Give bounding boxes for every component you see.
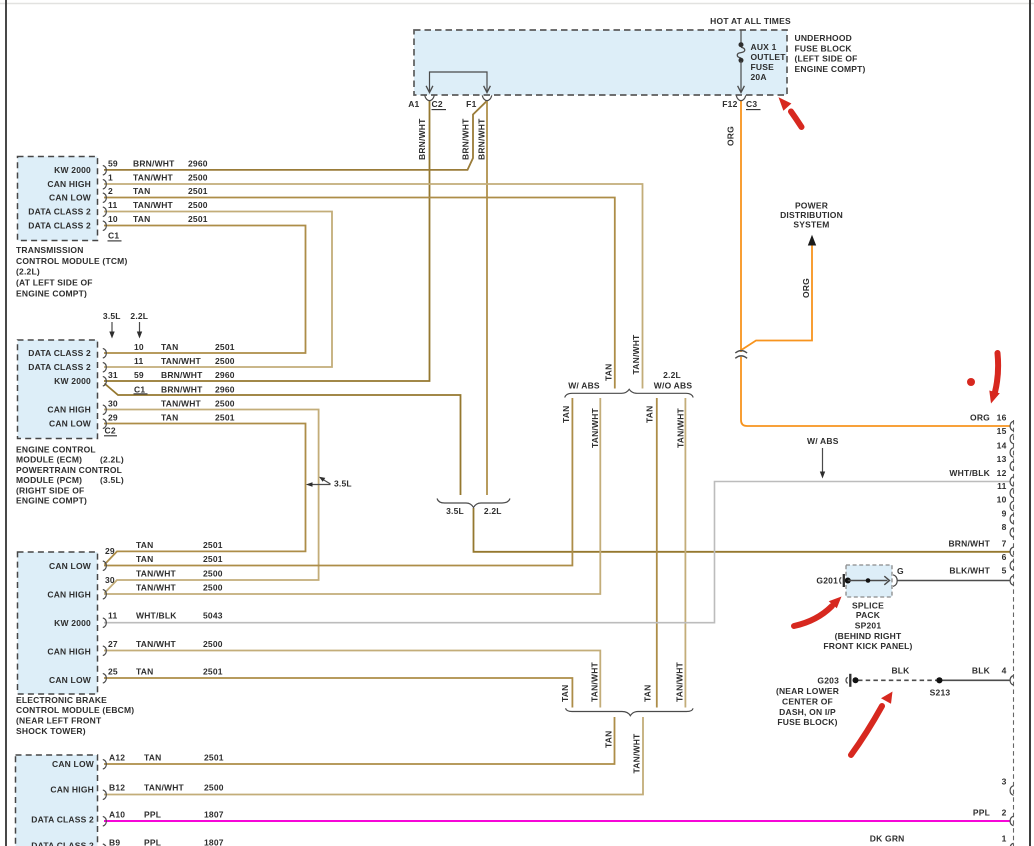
svg-text:UNDERHOOD: UNDERHOOD [795, 33, 853, 43]
svg-text:(AT LEFT SIDE OF: (AT LEFT SIDE OF [16, 278, 93, 288]
ECM pin arc 10 [103, 348, 107, 358]
svg-text:BLK: BLK [972, 665, 991, 675]
svg-text:A10: A10 [109, 810, 125, 820]
svg-text:PACK: PACK [856, 610, 881, 620]
svg-text:FUSE: FUSE [751, 62, 775, 72]
wire TAN 2501 TCM pin 2 to W/ABS brace top [104, 198, 615, 389]
EBCM pin arc 25 [103, 673, 107, 683]
svg-text:(NEAR LOWER: (NEAR LOWER [776, 686, 839, 696]
svg-text:ENGINE COMPT): ENGINE COMPT) [16, 496, 87, 506]
ECM pin arc 30 [103, 405, 107, 415]
svg-text:C2: C2 [105, 426, 116, 436]
svg-text:2: 2 [1002, 807, 1007, 817]
TCM pin arc 10 [103, 221, 107, 231]
wire TAN 2501 W/O ABS brace-to-brace vertical [656, 398, 658, 708]
svg-text:BRN/WHT: BRN/WHT [161, 370, 203, 380]
svg-text:SPLICE: SPLICE [852, 600, 884, 610]
wire TAN 2501 EBCM CAN LOW pin 25 to bottom brace [104, 678, 572, 708]
right connector pin cup 9 [1010, 514, 1014, 524]
right connector pin cup 12 [1010, 477, 1014, 487]
right connector pin cup 8 [1010, 528, 1014, 538]
right connector pin cup 11 [1010, 488, 1014, 498]
svg-text:59: 59 [108, 159, 118, 169]
svg-text:TAN/WHT: TAN/WHT [632, 733, 642, 774]
svg-text:TAN: TAN [133, 186, 150, 196]
wire BLK/WHT splice pack G to right connector pin 5 [897, 580, 1010, 582]
svg-text:(2.2L): (2.2L) [16, 267, 40, 277]
svg-text:C2: C2 [432, 99, 443, 109]
wire BRN/WHT 2960 from fuse block F1 (diagonal) down to TCM pin 59 [104, 101, 487, 170]
svg-text:2500: 2500 [203, 569, 223, 579]
wire break symbol on ORG wire [735, 351, 749, 359]
svg-text:CAN LOW: CAN LOW [49, 561, 92, 571]
svg-text:CAN LOW: CAN LOW [52, 759, 95, 769]
page right border [1029, 0, 1031, 846]
TCM pin arc 11 [103, 207, 107, 217]
svg-text:2500: 2500 [188, 173, 208, 183]
wire ORG below break to right connector pin 16 [741, 355, 1010, 426]
splice pack SP201 internals: dot, dot, arrow [845, 576, 890, 585]
svg-text:13: 13 [997, 454, 1007, 464]
wire TAN/WHT 2500 ECM CAN HIGH pin 30 to EBCM CAN HIGH pin 30 (diagonal at pin) [104, 410, 319, 594]
svg-text:TAN: TAN [136, 667, 153, 677]
wire ORG from fuse block F12/C3 down to break [740, 101, 742, 352]
brace W/ABS W/O ABS split [565, 389, 694, 397]
svg-text:12: 12 [997, 468, 1007, 478]
wire TAN/WHT 2500 bottom brace to DLC pin B12 [104, 717, 643, 795]
svg-text:WHT/BLK: WHT/BLK [136, 611, 177, 621]
fuse block internal bus A1 to F1 [430, 72, 488, 92]
svg-text:TAN/WHT: TAN/WHT [133, 173, 174, 183]
svg-text:DATA CLASS 2: DATA CLASS 2 [28, 221, 91, 231]
svg-text:14: 14 [997, 440, 1007, 450]
svg-text:29: 29 [108, 413, 118, 423]
svg-text:F1: F1 [466, 99, 476, 109]
svg-text:DATA CLASS 2: DATA CLASS 2 [31, 841, 94, 846]
wire WHT/BLK 5043 EBCM KW2000 pin 11 to right connector pin 12 [104, 482, 1010, 623]
DLC pin arc B12 [103, 790, 107, 800]
right connector pin cup 4 [1010, 676, 1014, 686]
connector cup F12/C3 [736, 95, 746, 100]
svg-text:TRANSMISSION: TRANSMISSION [16, 245, 84, 255]
wire TAN/WHT 2500 W/O ABS brace-to-brace vertical [684, 398, 686, 708]
svg-text:OUTLET: OUTLET [751, 52, 787, 62]
svg-text:TAN/WHT: TAN/WHT [590, 661, 600, 702]
LAYER: wires [104, 101, 1010, 821]
svg-text:C1: C1 [134, 385, 145, 395]
svg-text:A12: A12 [109, 753, 125, 763]
svg-text:2500: 2500 [204, 783, 224, 793]
right connector pin cup 14 [1010, 448, 1014, 458]
svg-text:TAN/WHT: TAN/WHT [136, 639, 177, 649]
svg-text:CAN HIGH: CAN HIGH [47, 179, 91, 189]
EBCM pin arc 29 [103, 561, 107, 571]
svg-text:2.2L: 2.2L [484, 506, 502, 516]
EBCM module box [18, 552, 98, 694]
arrowhead up to POWER DISTRIBUTION SYSTEM [808, 235, 816, 246]
svg-text:2500: 2500 [215, 399, 235, 409]
red arrow to G203 dashed wire [851, 706, 882, 755]
svg-text:TAN: TAN [136, 540, 153, 550]
svg-text:29: 29 [105, 546, 115, 556]
svg-text:TAN: TAN [136, 554, 153, 564]
svg-text:DK GRN: DK GRN [870, 833, 905, 843]
svg-text:SHOCK TOWER): SHOCK TOWER) [16, 726, 86, 736]
svg-text:TAN/WHT: TAN/WHT [674, 661, 684, 702]
ECM pin arc 11 [103, 362, 107, 372]
wire TAN 2501 ECM CAN LOW pin 29 to EBCM CAN LOW pin 29 (diagonal at pin) [104, 424, 306, 565]
svg-text:15: 15 [997, 426, 1007, 436]
svg-text:A1: A1 [408, 99, 419, 109]
TCM module box [18, 157, 98, 241]
right connector pin cup 5 [1010, 576, 1014, 586]
right module connector dashed line [1013, 420, 1015, 846]
wire TAN/WHT 2500 TCM pin 1 to W/ABS brace top [104, 184, 643, 389]
underhood fuse block box [414, 30, 787, 95]
page left border [5, 0, 7, 846]
svg-text:2500: 2500 [203, 639, 223, 649]
svg-text:2501: 2501 [203, 554, 223, 564]
svg-text:CAN HIGH: CAN HIGH [47, 647, 91, 657]
svg-text:30: 30 [105, 575, 115, 585]
svg-text:(2.2L): (2.2L) [100, 455, 124, 465]
svg-text:POWERTRAIN CONTROL: POWERTRAIN CONTROL [16, 465, 122, 475]
LAYER: red annotations [779, 97, 1000, 755]
right connector pin cup 7 [1010, 547, 1014, 557]
svg-text:2501: 2501 [204, 753, 224, 763]
ECM pin arc 29 [103, 419, 107, 429]
svg-text:3: 3 [1002, 776, 1007, 786]
svg-text:MODULE (PCM): MODULE (PCM) [16, 475, 82, 485]
svg-text:2501: 2501 [203, 540, 223, 550]
arrowhead down into A1 [426, 86, 433, 93]
svg-text:ENGINE COMPT): ENGINE COMPT) [795, 64, 866, 74]
svg-text:2501: 2501 [188, 214, 208, 224]
splice pack output cup G [893, 575, 897, 587]
svg-text:DATA CLASS 2: DATA CLASS 2 [31, 815, 94, 825]
svg-text:DATA CLASS 2: DATA CLASS 2 [28, 362, 91, 372]
svg-text:6: 6 [1002, 552, 1007, 562]
svg-text:BRN/WHT: BRN/WHT [476, 118, 486, 160]
wire ORG branch to power distribution system [741, 244, 812, 350]
svg-text:3.5L: 3.5L [446, 506, 464, 516]
svg-text:B9: B9 [109, 838, 120, 846]
svg-text:BLK/WHT: BLK/WHT [949, 566, 990, 576]
EBCM pin arc 30 [103, 589, 107, 599]
svg-text:7: 7 [1002, 538, 1007, 548]
ground G201 symbol [840, 574, 844, 587]
svg-text:CAN HIGH: CAN HIGH [47, 590, 91, 600]
svg-text:B12: B12 [109, 783, 125, 793]
bottom DLC module box [16, 755, 98, 846]
wire TAN/WHT 2500 TCM pin 11 to ECM DATA CLASS 2 pin 11 [104, 212, 332, 368]
right connector pin cup 3 [1010, 786, 1014, 796]
fuse AUX 1 OUTLET FUSE 20A [737, 30, 745, 92]
svg-text:2.2L: 2.2L [130, 311, 148, 321]
svg-text:BRN/WHT: BRN/WHT [948, 538, 990, 548]
red arrow to splice pack SP201 [794, 606, 832, 626]
svg-text:9: 9 [1002, 508, 1007, 518]
svg-text:CAN HIGH: CAN HIGH [50, 785, 94, 795]
DLC pin arc A12 [103, 759, 107, 769]
svg-text:(RIGHT SIDE OF: (RIGHT SIDE OF [16, 486, 84, 496]
svg-text:1807: 1807 [204, 810, 224, 820]
svg-text:TAN: TAN [133, 214, 150, 224]
svg-text:KW 2000: KW 2000 [54, 165, 91, 175]
svg-text:FUSE BLOCK): FUSE BLOCK) [777, 717, 837, 727]
arrow W/ ABS annotation down at WHT/BLK wire [822, 448, 824, 473]
svg-text:BLK: BLK [891, 665, 910, 675]
right connector pin cup 10 [1010, 501, 1014, 511]
svg-text:(BEHIND RIGHT: (BEHIND RIGHT [835, 631, 902, 641]
svg-text:DISTRIBUTION: DISTRIBUTION [780, 210, 843, 220]
EBCM pin arc 27 [103, 646, 107, 656]
wire TAN 2501 bottom brace to DLC pin A12 [104, 717, 615, 764]
right connector pin cup 2 [1010, 816, 1014, 826]
DLC pin arc B9 [103, 844, 107, 846]
svg-text:59: 59 [134, 370, 144, 380]
svg-text:1: 1 [1002, 833, 1007, 843]
svg-text:2500: 2500 [188, 200, 208, 210]
ECM module box [18, 340, 98, 439]
svg-text:CONTROL MODULE (TCM): CONTROL MODULE (TCM) [16, 256, 128, 266]
svg-text:DATA CLASS 2: DATA CLASS 2 [28, 348, 91, 358]
right connector pin cup 6 [1010, 561, 1014, 571]
svg-text:CONTROL MODULE (EBCM): CONTROL MODULE (EBCM) [16, 705, 134, 715]
svg-text:TAN: TAN [604, 731, 614, 748]
ECM pin arc 31/59 [103, 376, 107, 386]
wire BRN/WHT combined from 3.5L/2.2L brace to right connector pin 7 [474, 508, 1011, 552]
svg-text:TAN/WHT: TAN/WHT [133, 200, 174, 210]
DLC pin arc A10 [103, 816, 107, 826]
svg-text:TAN/WHT: TAN/WHT [144, 783, 185, 793]
arrowhead down into F1 [484, 86, 491, 93]
right connector pin cup 13 [1010, 461, 1014, 471]
svg-text:2960: 2960 [215, 385, 235, 395]
svg-text:FUSE BLOCK: FUSE BLOCK [795, 43, 853, 53]
svg-text:G201: G201 [816, 576, 838, 586]
svg-text:TAN: TAN [604, 364, 614, 381]
red arrow to fuse block C3 [791, 112, 802, 128]
TCM pin arc 59 [103, 165, 107, 175]
svg-text:1807: 1807 [204, 838, 224, 846]
right connector pin cup 15 [1010, 434, 1014, 444]
svg-text:2960: 2960 [215, 370, 235, 380]
wire TAN/WHT 2500 EBCM pin 30 second lead to W/ABS brace [104, 398, 600, 594]
svg-text:11: 11 [997, 481, 1006, 491]
svg-text:PPL: PPL [973, 807, 990, 817]
svg-text:G203: G203 [817, 676, 839, 686]
svg-text:HOT AT ALL TIMES: HOT AT ALL TIMES [710, 16, 791, 26]
svg-text:3.5L: 3.5L [103, 311, 121, 321]
arrow 2.2L annotation down (above ECM col 59) [139, 322, 141, 333]
svg-text:KW 2000: KW 2000 [54, 618, 91, 628]
svg-text:10: 10 [134, 342, 144, 352]
svg-text:ORG: ORG [970, 413, 990, 423]
svg-text:TAN: TAN [161, 413, 178, 423]
brace bottom join to DLC [566, 708, 694, 715]
red dot near pin 16 [967, 378, 975, 386]
svg-text:DASH, ON I/P: DASH, ON I/P [779, 707, 836, 717]
wire BRN/WHT 2960 from fuse block F1 straight down to 2.2L brace [486, 101, 488, 495]
svg-text:SYSTEM: SYSTEM [793, 219, 829, 229]
svg-text:2.2L: 2.2L [663, 370, 681, 380]
svg-text:TAN/WHT: TAN/WHT [631, 334, 641, 375]
wire TAN 2501 EBCM pin 29 second lead to W/ABS brace [104, 398, 572, 566]
svg-text:ELECTRONIC BRAKE: ELECTRONIC BRAKE [16, 695, 107, 705]
svg-text:CENTER OF: CENTER OF [782, 696, 833, 706]
splice S213 dot [936, 677, 942, 683]
svg-text:2: 2 [108, 186, 113, 196]
arrow 3.5L annotation down (above ECM col 31) [111, 322, 113, 333]
svg-text:AUX 1: AUX 1 [751, 42, 777, 52]
svg-text:2500: 2500 [215, 356, 235, 366]
brace 3.5L/2.2L join [437, 499, 510, 508]
svg-text:ENGINE COMPT): ENGINE COMPT) [16, 288, 87, 298]
svg-text:TAN: TAN [642, 685, 652, 702]
svg-text:8: 8 [1002, 522, 1007, 532]
svg-text:11: 11 [108, 200, 117, 210]
svg-text:W/O ABS: W/O ABS [654, 381, 693, 391]
svg-text:16: 16 [997, 413, 1007, 423]
svg-text:W/ ABS: W/ ABS [807, 436, 839, 446]
svg-text:11: 11 [108, 611, 117, 621]
svg-text:2501: 2501 [203, 667, 223, 677]
svg-text:BRN/WHT: BRN/WHT [133, 159, 175, 169]
svg-text:BRN/WHT: BRN/WHT [161, 385, 203, 395]
svg-text:W/ ABS: W/ ABS [568, 381, 600, 391]
svg-text:2960: 2960 [188, 159, 208, 169]
svg-text:ORG: ORG [726, 126, 736, 146]
svg-text:5: 5 [1002, 566, 1007, 576]
svg-text:3.5L: 3.5L [334, 479, 352, 489]
arrowhead 3.5L diagonal at TAN/WHT vertical [323, 480, 331, 485]
svg-text:(LEFT SIDE OF: (LEFT SIDE OF [795, 54, 858, 64]
svg-text:PPL: PPL [144, 810, 161, 820]
svg-text:PPL: PPL [144, 838, 161, 846]
ground G203 symbol [846, 674, 859, 687]
svg-text:C1: C1 [108, 231, 119, 241]
svg-text:SP201: SP201 [855, 620, 882, 630]
svg-text:WHT/BLK: WHT/BLK [949, 468, 990, 478]
svg-text:FRONT KICK PANEL): FRONT KICK PANEL) [823, 641, 912, 651]
svg-text:(3.5L): (3.5L) [100, 475, 124, 485]
wire TAN/WHT 2500 EBCM CAN HIGH pin 27 to bottom brace [104, 651, 600, 708]
connector cup F1 [482, 95, 492, 100]
svg-text:4: 4 [1002, 665, 1007, 675]
EBCM pin arc 11 [103, 618, 107, 628]
svg-text:TAN: TAN [144, 753, 161, 763]
right connector pin cup 1 [1010, 843, 1014, 846]
svg-text:TAN/WHT: TAN/WHT [675, 407, 685, 448]
svg-text:TAN: TAN [645, 406, 655, 423]
svg-text:20A: 20A [751, 72, 767, 82]
svg-text:DATA CLASS 2: DATA CLASS 2 [28, 207, 91, 217]
svg-text:MODULE (ECM): MODULE (ECM) [16, 455, 82, 465]
svg-text:KW 2000: KW 2000 [54, 376, 91, 386]
svg-text:10: 10 [108, 214, 118, 224]
svg-text:1: 1 [108, 173, 113, 183]
svg-text:TAN/WHT: TAN/WHT [136, 569, 177, 579]
svg-text:BRN/WHT: BRN/WHT [460, 118, 470, 160]
svg-text:TAN/WHT: TAN/WHT [590, 407, 600, 448]
svg-text:S213: S213 [930, 688, 951, 698]
svg-text:TAN/WHT: TAN/WHT [161, 399, 202, 409]
wire TAN 2501 TCM pin 10 to ECM DATA CLASS 2 pin 10 [104, 226, 306, 354]
TCM pin arc 1 [103, 179, 107, 189]
arrowhead down into F12 [738, 86, 745, 93]
wire PPL 1807 DLC pin A10 to right connector pin 2 [104, 820, 1010, 822]
svg-text:CAN LOW: CAN LOW [49, 675, 92, 685]
svg-text:TAN/WHT: TAN/WHT [161, 356, 202, 366]
svg-text:2501: 2501 [215, 413, 235, 423]
arrow 3.5L annotation pointing left at ECM CAN wires [310, 484, 331, 486]
svg-text:5043: 5043 [203, 611, 223, 621]
svg-text:2500: 2500 [203, 583, 223, 593]
svg-text:30: 30 [108, 399, 118, 409]
splice pack SP201 box [846, 565, 892, 597]
TCM pin arc 2 [103, 193, 107, 203]
wire BRN/WHT 2960 from fuse block A1/C2 down to ECM KW2000 pin 31/59 [104, 101, 430, 381]
svg-text:CAN HIGH: CAN HIGH [47, 405, 91, 415]
svg-text:ORG: ORG [801, 278, 811, 298]
svg-text:TAN: TAN [161, 342, 178, 352]
svg-text:(NEAR LEFT FRONT: (NEAR LEFT FRONT [16, 716, 102, 726]
right connector pin cup 16 [1010, 421, 1014, 431]
svg-text:ENGINE CONTROL: ENGINE CONTROL [16, 445, 96, 455]
svg-text:TAN/WHT: TAN/WHT [136, 583, 177, 593]
svg-text:2501: 2501 [188, 186, 208, 196]
svg-text:POWER: POWER [795, 200, 828, 210]
svg-text:31: 31 [108, 370, 118, 380]
svg-text:11: 11 [134, 356, 143, 366]
wire BLK splice S213 to right connector pin 4 [937, 679, 1010, 681]
connector cup A1/C2 [425, 95, 435, 100]
svg-text:2501: 2501 [215, 342, 235, 352]
svg-text:F12: F12 [722, 99, 737, 109]
svg-text:10: 10 [997, 495, 1007, 505]
svg-text:TAN: TAN [560, 685, 570, 702]
wire BLK dashed G203 to splice S213 [858, 679, 937, 681]
svg-text:C3: C3 [746, 99, 757, 109]
svg-text:27: 27 [108, 639, 118, 649]
svg-text:CAN LOW: CAN LOW [49, 419, 92, 429]
wire BRN/WHT 2960 ECM C1 second lead (diagonal) to 3.5L brace [105, 384, 461, 496]
svg-text:G: G [897, 566, 904, 576]
svg-text:CAN LOW: CAN LOW [49, 193, 92, 203]
svg-text:BRN/WHT: BRN/WHT [417, 118, 427, 160]
svg-text:25: 25 [108, 667, 118, 677]
svg-text:TAN: TAN [561, 406, 571, 423]
red arrow down to pin 16 ORG [995, 353, 998, 392]
page top faint rule [0, 3, 1034, 5]
